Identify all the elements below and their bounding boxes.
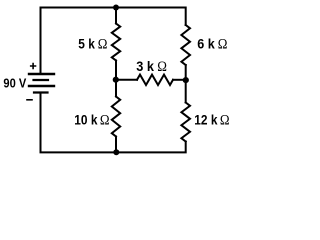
node junction dot bottom <box>113 149 119 155</box>
svg-text:Ω: Ω <box>157 58 167 74</box>
node junction dot left mid <box>113 77 119 83</box>
battery B1 plate short <box>34 79 49 81</box>
svg-text:3 k: 3 k <box>136 58 154 74</box>
svg-text:12 k: 12 k <box>194 112 218 128</box>
wire bottom loop <box>41 94 186 153</box>
resistor R1 5 kΩ <box>112 24 120 61</box>
wire middle branch mid <box>115 61 117 97</box>
resistor R2 6 kΩ <box>181 25 190 65</box>
svg-text:90 V: 90 V <box>3 76 26 91</box>
wire top and left and right-top stub <box>41 8 186 74</box>
node junction dot top <box>113 5 119 11</box>
resistor R4 12 kΩ <box>181 103 190 142</box>
resistor R3 10 kΩ <box>112 97 120 137</box>
svg-text:Ω: Ω <box>220 112 230 128</box>
svg-text:Ω: Ω <box>100 112 110 128</box>
minus sign <box>27 99 32 101</box>
resistor R5 3 kΩ <box>137 75 173 85</box>
wire bridge right segment <box>173 79 186 81</box>
svg-text:5 k: 5 k <box>78 36 95 52</box>
battery B1 plate short bottom <box>34 91 48 93</box>
node junction dot right mid <box>183 77 189 83</box>
svg-text:Ω: Ω <box>98 36 108 52</box>
wire right branch mid <box>185 65 187 103</box>
svg-text:10 k: 10 k <box>74 112 98 128</box>
svg-text:6 k: 6 k <box>197 36 215 52</box>
wire bridge left segment <box>116 79 137 81</box>
battery B1 plate long top <box>29 73 54 75</box>
wire middle branch top stub <box>115 8 117 24</box>
svg-text:Ω: Ω <box>218 36 228 52</box>
plus sign <box>31 64 36 69</box>
wire middle branch bottom stub <box>115 137 117 153</box>
battery B1 plate long bottom <box>29 85 54 87</box>
